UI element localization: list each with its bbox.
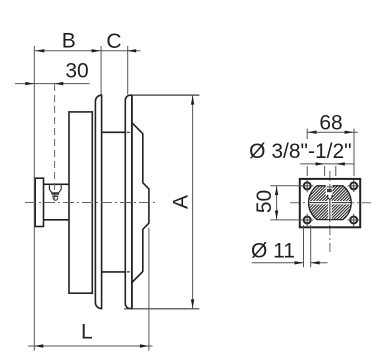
svg-text:C: C xyxy=(106,30,121,53)
svg-text:30: 30 xyxy=(65,60,88,83)
svg-text:L: L xyxy=(81,321,93,344)
svg-text:A: A xyxy=(170,195,193,209)
svg-text:50: 50 xyxy=(253,190,276,213)
svg-text:B: B xyxy=(62,30,76,53)
svg-text:Ø 11: Ø 11 xyxy=(251,239,295,262)
svg-text:68: 68 xyxy=(319,111,342,134)
svg-text:Ø 3/8"-1/2": Ø 3/8"-1/2" xyxy=(249,140,351,163)
